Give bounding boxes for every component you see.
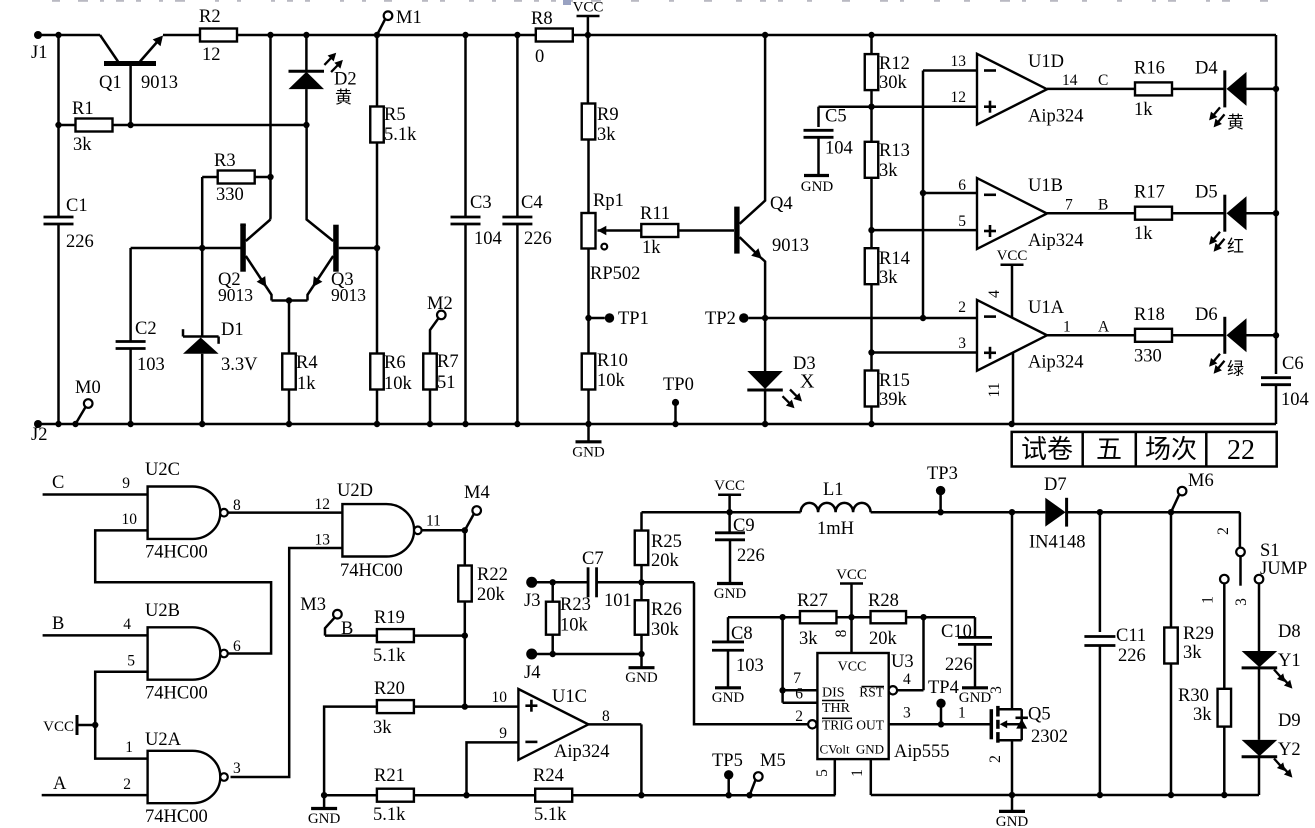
svg-text:10k: 10k	[560, 616, 589, 636]
svg-text:C1: C1	[66, 196, 88, 216]
svg-text:103: 103	[137, 355, 165, 375]
svg-text:RP502: RP502	[590, 264, 640, 284]
svg-text:场次: 场次	[1145, 435, 1197, 464]
svg-text:R10: R10	[597, 351, 628, 371]
svg-text:3: 3	[958, 335, 966, 352]
svg-text:C8: C8	[731, 624, 753, 644]
svg-text:11: 11	[426, 513, 441, 530]
svg-text:B: B	[52, 614, 64, 634]
svg-text:GND: GND	[625, 670, 658, 686]
svg-text:D4: D4	[1195, 58, 1218, 78]
svg-text:M2: M2	[427, 294, 453, 314]
svg-text:Aip555: Aip555	[894, 742, 950, 762]
svg-text:U1C: U1C	[552, 687, 587, 707]
svg-text:R18: R18	[1134, 305, 1165, 325]
svg-text:3k: 3k	[373, 718, 392, 738]
svg-text:30k: 30k	[879, 73, 908, 93]
svg-text:黄: 黄	[1227, 113, 1244, 132]
svg-text:VCC: VCC	[573, 0, 604, 16]
svg-text:6: 6	[795, 686, 803, 703]
svg-text:Aip324: Aip324	[1028, 231, 1084, 251]
svg-text:R14: R14	[879, 249, 910, 269]
svg-text:TP2: TP2	[705, 309, 736, 329]
svg-text:7: 7	[793, 670, 801, 687]
svg-text:L1: L1	[823, 480, 844, 500]
svg-text:M6: M6	[1188, 471, 1214, 491]
svg-text:M0: M0	[75, 378, 101, 398]
svg-text:2: 2	[958, 299, 966, 316]
svg-text:9013: 9013	[141, 73, 178, 93]
svg-text:R25: R25	[651, 532, 682, 552]
svg-text:U2A: U2A	[145, 730, 182, 750]
svg-text:C7: C7	[582, 549, 604, 569]
svg-text:13: 13	[315, 532, 331, 549]
svg-text:5: 5	[958, 213, 966, 230]
svg-text:M4: M4	[464, 483, 490, 503]
svg-text:226: 226	[945, 655, 973, 675]
svg-text:R16: R16	[1134, 58, 1165, 78]
svg-text:5: 5	[814, 769, 831, 777]
svg-text:1k: 1k	[297, 374, 316, 394]
svg-text:22: 22	[1227, 435, 1255, 466]
svg-text:8: 8	[602, 708, 610, 725]
svg-text:1k: 1k	[642, 238, 661, 258]
svg-text:74HC00: 74HC00	[340, 561, 403, 581]
svg-text:1mH: 1mH	[817, 519, 854, 539]
svg-text:U2B: U2B	[145, 601, 180, 621]
svg-text:1k: 1k	[1134, 224, 1153, 244]
svg-text:VCC: VCC	[997, 248, 1028, 264]
svg-text:Q5: Q5	[1028, 705, 1051, 725]
svg-text:20k: 20k	[477, 585, 506, 605]
svg-text:3.3V: 3.3V	[221, 355, 258, 375]
svg-text:11: 11	[986, 383, 1003, 398]
svg-text:U1A: U1A	[1028, 298, 1065, 318]
svg-text:12: 12	[315, 496, 331, 513]
svg-text:1: 1	[849, 769, 866, 777]
svg-text:4: 4	[903, 671, 911, 688]
svg-text:104: 104	[825, 139, 853, 159]
svg-text:R23: R23	[560, 595, 591, 615]
svg-text:U2D: U2D	[337, 481, 373, 501]
svg-text:C6: C6	[1282, 354, 1304, 374]
svg-text:C3: C3	[470, 193, 492, 213]
svg-text:R11: R11	[640, 204, 670, 224]
svg-text:3k: 3k	[73, 135, 92, 155]
svg-text:51: 51	[437, 373, 456, 393]
svg-text:R9: R9	[597, 105, 619, 125]
svg-text:D2: D2	[334, 70, 357, 90]
svg-text:JUMP: JUMP	[1260, 559, 1307, 579]
svg-text:U3: U3	[891, 652, 914, 672]
svg-text:20k: 20k	[869, 629, 898, 649]
svg-text:2: 2	[1215, 527, 1232, 535]
svg-text:R2: R2	[199, 7, 221, 27]
svg-text:R28: R28	[868, 591, 899, 611]
svg-text:Y1: Y1	[1278, 651, 1301, 671]
svg-text:R7: R7	[437, 352, 459, 372]
svg-text:3: 3	[903, 705, 911, 722]
svg-text:12: 12	[202, 45, 221, 65]
svg-text:Aip324: Aip324	[1028, 107, 1084, 127]
svg-text:A: A	[53, 774, 67, 794]
svg-text:104: 104	[474, 229, 502, 249]
svg-text:D9: D9	[1278, 711, 1301, 731]
svg-text:J1: J1	[31, 43, 47, 63]
svg-text:TP4: TP4	[928, 678, 959, 698]
svg-text:R30: R30	[1178, 686, 1209, 706]
svg-text:C10: C10	[941, 622, 972, 642]
svg-text:J2: J2	[31, 425, 47, 445]
svg-text:IN4148: IN4148	[1029, 533, 1086, 553]
svg-text:J4: J4	[524, 663, 540, 683]
svg-text:M3: M3	[300, 595, 326, 615]
svg-text:J3: J3	[524, 591, 540, 611]
svg-text:30k: 30k	[651, 620, 680, 640]
svg-text:6: 6	[958, 177, 966, 194]
svg-text:74HC00: 74HC00	[145, 543, 208, 563]
svg-text:X: X	[800, 371, 815, 393]
svg-text:Q1: Q1	[99, 73, 122, 93]
svg-text:Q4: Q4	[770, 194, 793, 214]
svg-text:1: 1	[1200, 596, 1217, 604]
svg-text:VCC: VCC	[714, 478, 745, 494]
svg-text:3k: 3k	[1193, 705, 1212, 725]
svg-text:14: 14	[1062, 72, 1078, 89]
svg-text:TP3: TP3	[927, 464, 958, 484]
svg-text:S1: S1	[1260, 541, 1280, 561]
svg-text:104: 104	[1281, 390, 1309, 410]
svg-text:R15: R15	[879, 371, 910, 391]
svg-text:5.1k: 5.1k	[373, 646, 406, 666]
svg-text:10k: 10k	[384, 374, 413, 394]
svg-text:D7: D7	[1044, 475, 1067, 495]
svg-text:10k: 10k	[597, 371, 626, 391]
svg-text:5.1k: 5.1k	[384, 125, 417, 145]
svg-text:R3: R3	[214, 151, 236, 171]
svg-text:VCC: VCC	[43, 719, 74, 735]
svg-text:R12: R12	[879, 54, 910, 74]
svg-text:20k: 20k	[651, 551, 680, 571]
svg-text:M5: M5	[760, 751, 786, 771]
svg-text:6: 6	[233, 638, 241, 655]
svg-text:OUT: OUT	[856, 718, 884, 733]
svg-text:C: C	[1098, 72, 1108, 89]
svg-text:3k: 3k	[1183, 643, 1202, 663]
svg-text:TP1: TP1	[618, 309, 649, 329]
svg-text:R19: R19	[374, 608, 405, 628]
svg-text:8: 8	[233, 497, 241, 514]
svg-text:74HC00: 74HC00	[145, 807, 208, 827]
svg-text:TP0: TP0	[663, 375, 694, 395]
svg-text:GND: GND	[712, 690, 745, 706]
svg-text:C9: C9	[733, 516, 755, 536]
svg-text:R27: R27	[797, 591, 828, 611]
svg-text:R24: R24	[533, 766, 564, 786]
svg-text:R20: R20	[374, 679, 405, 699]
svg-text:3k: 3k	[879, 268, 898, 288]
svg-text:Aip324: Aip324	[554, 742, 610, 762]
svg-text:12: 12	[951, 89, 967, 106]
svg-text:0: 0	[535, 47, 544, 67]
svg-text:U1D: U1D	[1028, 52, 1064, 72]
svg-text:C5: C5	[825, 107, 847, 127]
svg-text:绿: 绿	[1227, 359, 1244, 378]
svg-text:5.1k: 5.1k	[373, 805, 406, 825]
svg-text:D1: D1	[221, 320, 244, 340]
svg-text:4: 4	[986, 290, 1003, 298]
svg-text:D6: D6	[1195, 305, 1218, 325]
svg-text:2302: 2302	[1031, 727, 1068, 747]
svg-text:B: B	[1098, 197, 1108, 214]
svg-text:1: 1	[1063, 319, 1071, 336]
svg-text:试卷: 试卷	[1021, 435, 1073, 464]
svg-text:5: 5	[127, 653, 135, 670]
svg-text:C2: C2	[135, 319, 157, 339]
svg-text:9013: 9013	[772, 236, 809, 256]
svg-text:8: 8	[833, 629, 850, 637]
svg-text:3: 3	[233, 760, 241, 777]
svg-text:74HC00: 74HC00	[145, 684, 208, 704]
svg-text:Rp1: Rp1	[593, 191, 624, 211]
svg-text:1: 1	[958, 705, 966, 722]
svg-text:1: 1	[125, 739, 133, 756]
svg-text:R22: R22	[477, 565, 508, 585]
svg-text:330: 330	[1134, 346, 1162, 366]
svg-text:101: 101	[604, 591, 632, 611]
svg-text:R29: R29	[1183, 624, 1214, 644]
svg-text:TP5: TP5	[712, 751, 743, 771]
svg-text:R26: R26	[651, 600, 682, 620]
svg-text:R1: R1	[72, 99, 94, 119]
svg-text:U1B: U1B	[1028, 176, 1063, 196]
svg-text:1k: 1k	[1134, 100, 1153, 120]
svg-text:R17: R17	[1134, 183, 1165, 203]
svg-text:THR: THR	[822, 701, 851, 716]
svg-text:U2C: U2C	[145, 460, 180, 480]
svg-text:VCC: VCC	[836, 567, 867, 583]
svg-text:2: 2	[795, 708, 803, 725]
svg-text:9: 9	[499, 725, 507, 742]
svg-text:GND: GND	[856, 742, 884, 757]
svg-text:9: 9	[122, 475, 130, 492]
svg-text:10: 10	[492, 689, 508, 706]
svg-text:9013: 9013	[331, 285, 366, 305]
svg-text:黄: 黄	[335, 88, 352, 107]
svg-text:226: 226	[737, 546, 765, 566]
svg-text:GND: GND	[308, 811, 341, 827]
svg-text:D8: D8	[1278, 622, 1301, 642]
svg-text:R21: R21	[374, 766, 405, 786]
svg-text:R8: R8	[531, 9, 553, 29]
svg-text:CVolt: CVolt	[820, 742, 850, 757]
svg-text:DIS: DIS	[822, 686, 845, 701]
svg-text:VCC: VCC	[838, 660, 867, 675]
svg-text:7: 7	[1065, 197, 1073, 214]
svg-text:226: 226	[1118, 646, 1146, 666]
svg-text:3k: 3k	[597, 125, 616, 145]
svg-text:2: 2	[123, 776, 131, 793]
svg-text:R5: R5	[384, 105, 406, 125]
svg-text:M1: M1	[396, 8, 422, 28]
svg-text:3k: 3k	[879, 161, 898, 181]
svg-text:3: 3	[988, 686, 1005, 694]
svg-text:39k: 39k	[879, 390, 908, 410]
svg-text:Aip324: Aip324	[1028, 353, 1084, 373]
svg-text:GND: GND	[572, 444, 605, 460]
svg-text:R6: R6	[384, 353, 406, 373]
svg-text:TRIG: TRIG	[822, 718, 854, 733]
svg-text:4: 4	[123, 616, 131, 633]
svg-text:226: 226	[66, 232, 94, 252]
svg-text:GND: GND	[996, 814, 1029, 828]
svg-text:13: 13	[951, 53, 967, 70]
svg-text:2: 2	[987, 755, 1004, 763]
svg-text:五: 五	[1096, 435, 1122, 464]
svg-text:D5: D5	[1195, 183, 1218, 203]
svg-text:GND: GND	[714, 586, 747, 602]
svg-text:3k: 3k	[799, 629, 818, 649]
svg-text:R4: R4	[296, 353, 318, 373]
svg-text:R13: R13	[879, 141, 910, 161]
svg-text:红: 红	[1227, 237, 1244, 256]
svg-text:103: 103	[736, 656, 764, 676]
svg-text:3: 3	[1233, 598, 1250, 606]
svg-text:330: 330	[216, 185, 244, 205]
svg-text:5.1k: 5.1k	[534, 805, 567, 825]
svg-text:226: 226	[524, 229, 552, 249]
svg-text:9013: 9013	[218, 285, 253, 305]
svg-text:10: 10	[122, 511, 138, 528]
svg-text:C: C	[52, 473, 64, 493]
svg-text:GND: GND	[801, 179, 834, 195]
svg-text:C11: C11	[1116, 626, 1146, 646]
svg-text:Y2: Y2	[1278, 740, 1301, 760]
svg-text:C4: C4	[521, 193, 543, 213]
svg-text:A: A	[1098, 319, 1110, 336]
